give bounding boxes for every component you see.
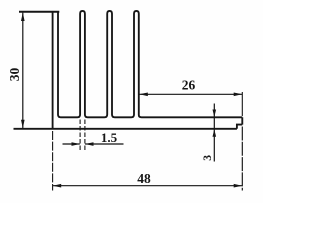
dim 30: bottom arrow <box>21 120 25 129</box>
dim 1.5: left extension dash <box>79 120 81 152</box>
heatsink profile: base top surface right of fin 3 <box>139 115 243 117</box>
dim 48: right extension line <box>241 127 243 191</box>
heatsink profile: bottom lip step <box>237 125 242 129</box>
heatsink profile: right edge <box>241 117 243 124</box>
dim 3: bottom arrow (pointing up to base bottom) <box>213 129 217 137</box>
dim 26: left arrow <box>139 93 148 97</box>
svg-text:3: 3 <box>202 155 214 161</box>
heatsink profile: base bottom line with left extension <box>14 128 237 130</box>
svg-text:1.5: 1.5 <box>101 130 118 145</box>
heatsink profile: top extension line <box>19 11 59 13</box>
dim 26: extension line right <box>241 92 243 116</box>
dim 48: left arrow <box>53 184 62 188</box>
dim 1.5: right dimension line <box>85 143 123 145</box>
heatsink profile: left wall right edge + channel 1 bottom + fin 1 <box>58 11 85 117</box>
dim 26: dimension line <box>140 93 243 95</box>
dim 26: right arrow <box>234 93 243 97</box>
svg-text:48: 48 <box>137 171 151 186</box>
dim 1.5: left dimension line <box>63 143 80 145</box>
dim 1.5: right extension dash <box>84 120 86 152</box>
dim 1.5: left arrow <box>72 142 81 146</box>
heatsink profile: channel 3 bottom + fin 3 <box>112 11 139 117</box>
dim 3: top arrow (pointing down to surface) <box>213 110 217 118</box>
dim 3: dimension line <box>213 104 215 162</box>
dim 1.5: right arrow <box>85 142 94 146</box>
heatsink profile: left wall left edge <box>52 12 54 129</box>
heatsink profile: channel 2 bottom + fin 2 <box>85 11 112 117</box>
dim 48: left extension line (dashed, below wall) <box>52 131 54 191</box>
dim 30: top arrow <box>21 13 25 22</box>
svg-text:30: 30 <box>7 68 22 82</box>
svg-text:26: 26 <box>182 78 196 93</box>
dim 30: dimension line <box>22 13 24 128</box>
dim 48: dimension line <box>53 185 242 187</box>
dim 48: right arrow <box>234 184 243 188</box>
